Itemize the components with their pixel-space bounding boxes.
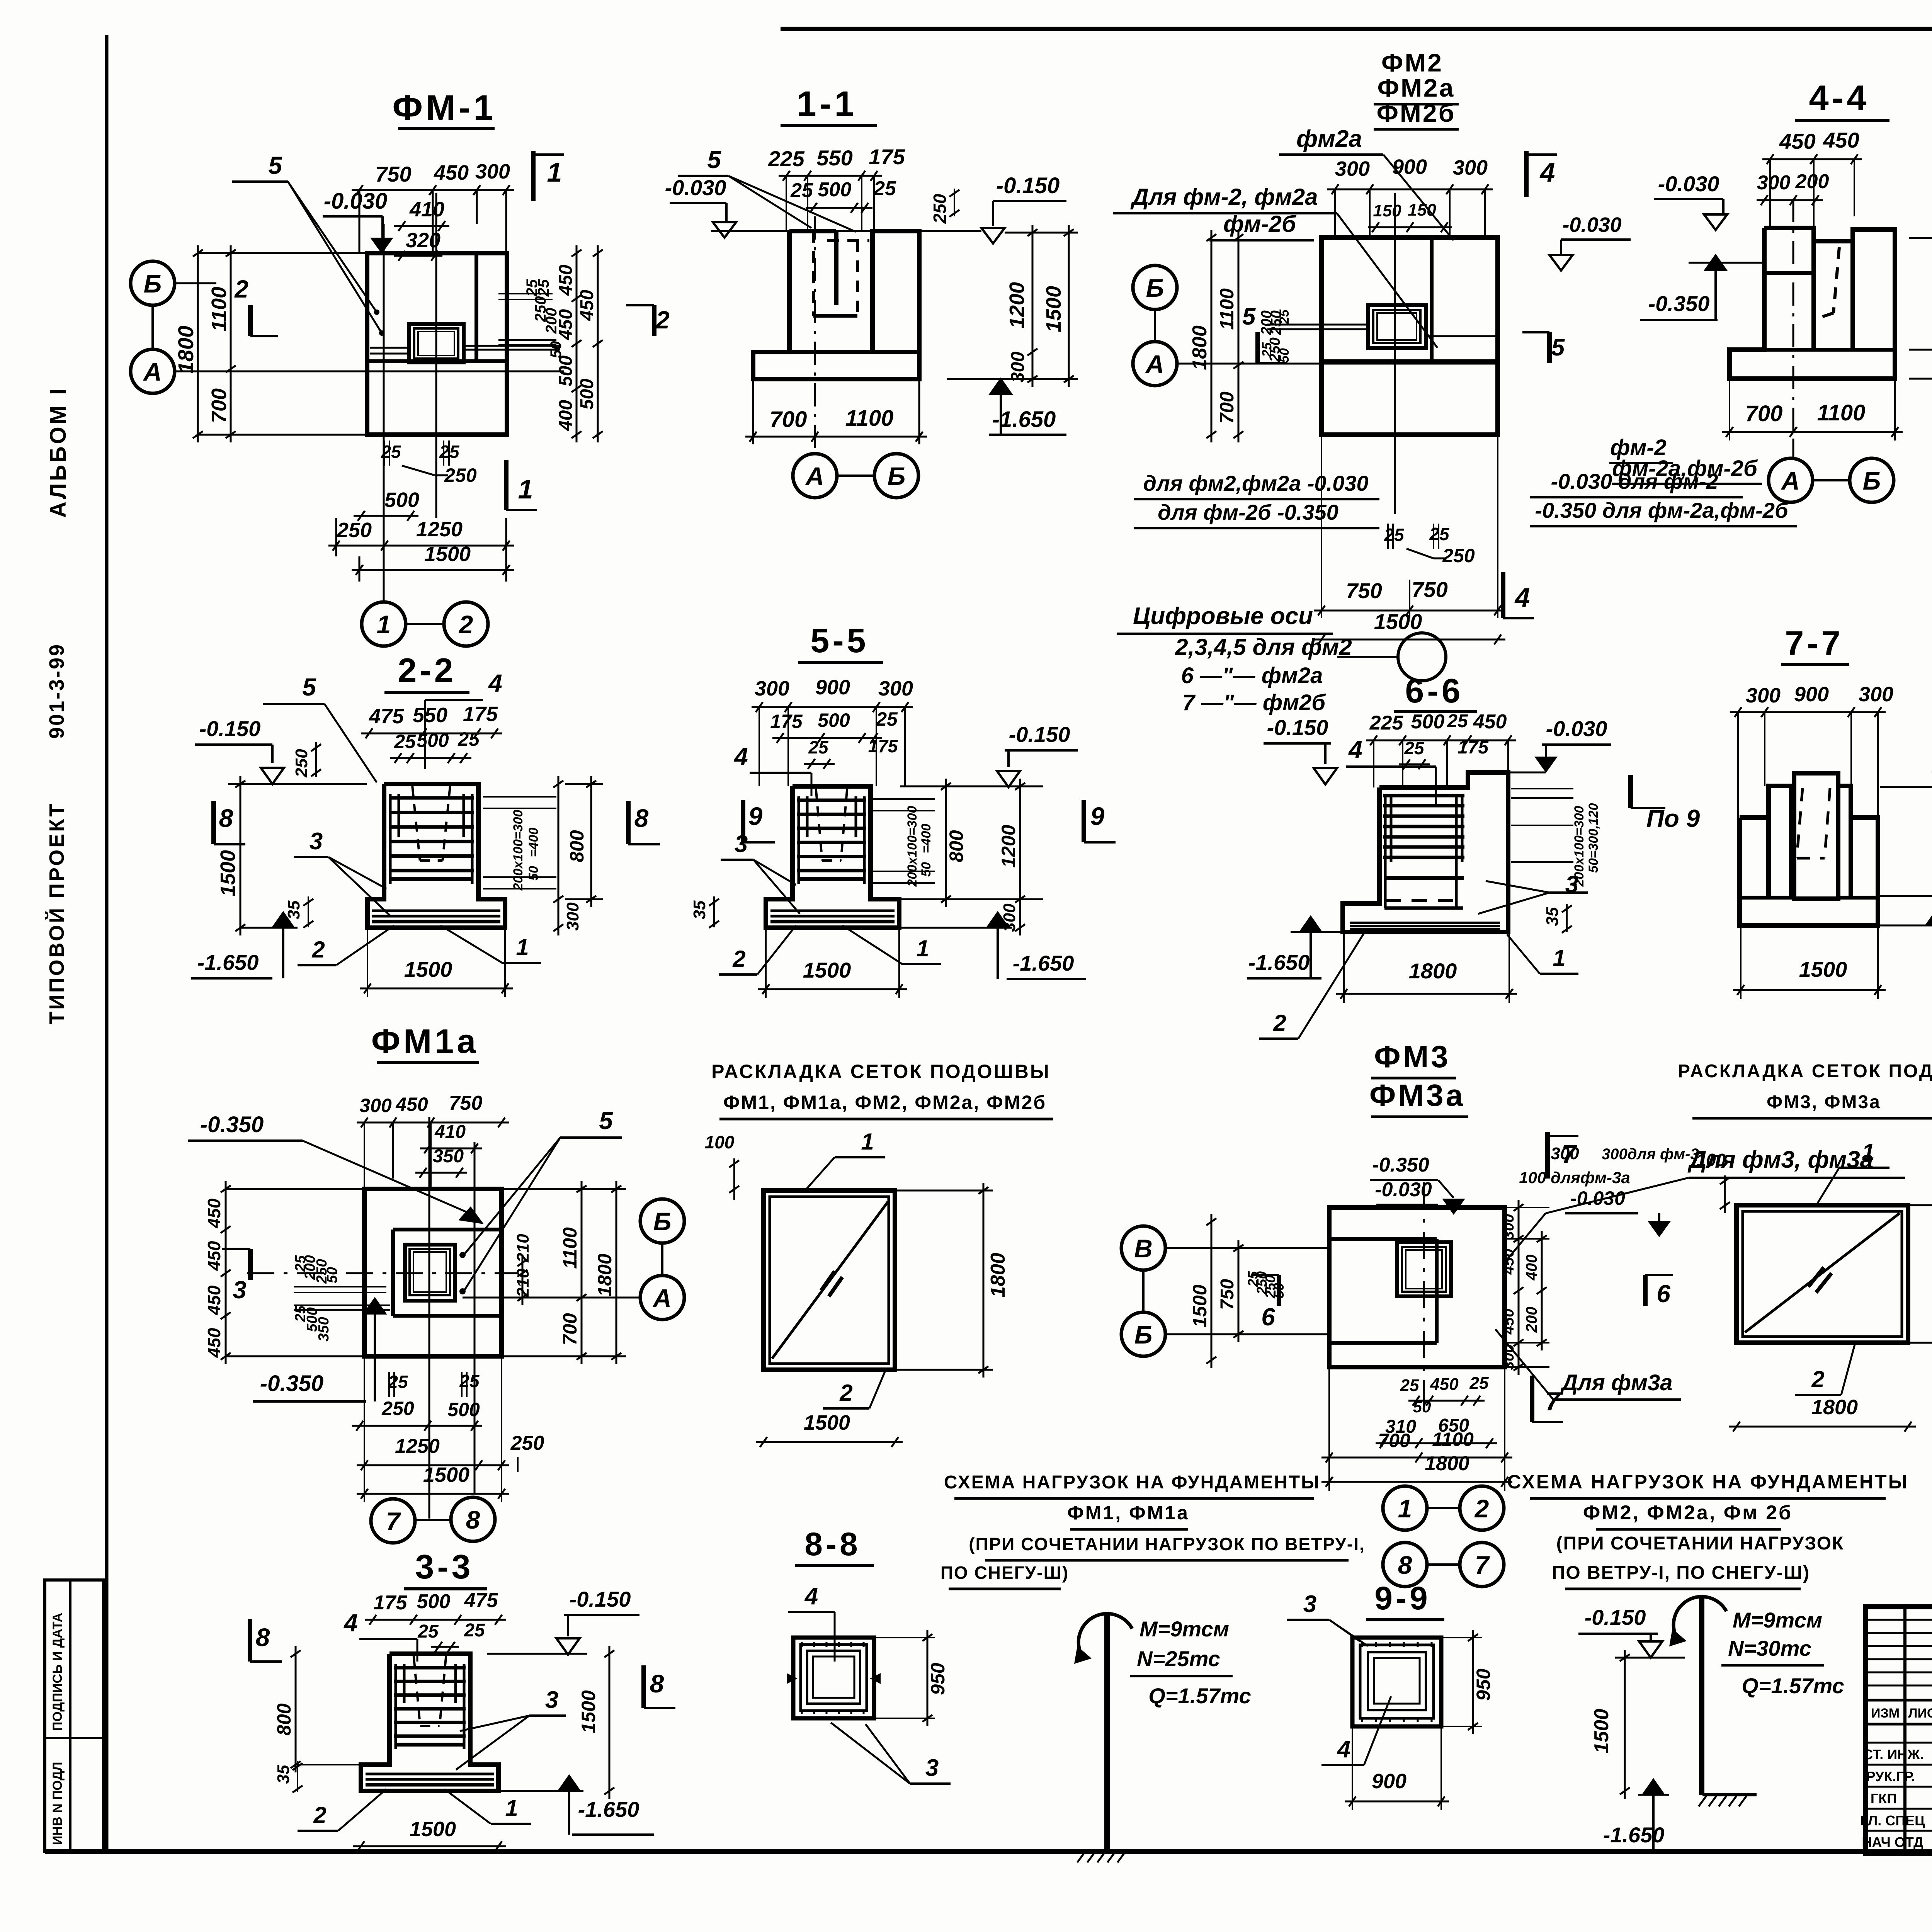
svg-text:5: 5 bbox=[599, 1107, 613, 1134]
section 3-3 body bbox=[361, 1654, 498, 1791]
svg-text:300: 300 bbox=[1335, 157, 1370, 180]
schema FM2 column line bbox=[1699, 1597, 1704, 1795]
svg-text:320: 320 bbox=[406, 229, 440, 252]
section 6-6 bottom mesh bbox=[1350, 922, 1500, 924]
svg-text:100 дляфм-3а: 100 дляфм-3а bbox=[1519, 1168, 1630, 1187]
svg-text:2: 2 bbox=[1474, 1494, 1489, 1523]
svg-text:1500: 1500 bbox=[424, 543, 471, 566]
svg-text:7 —"— фм2б: 7 —"— фм2б bbox=[1182, 690, 1326, 715]
svg-text:300: 300 bbox=[1859, 683, 1893, 706]
svg-text:450: 450 bbox=[577, 290, 597, 321]
svg-text:РУК.ГР.: РУК.ГР. bbox=[1866, 1769, 1915, 1784]
plan FM3 axis circle 7 bbox=[1460, 1543, 1504, 1587]
section 7-7 body inner right wall bbox=[1838, 786, 1851, 896]
section 1-1 axis circle A bbox=[793, 454, 837, 498]
svg-text:ГКП: ГКП bbox=[1871, 1791, 1897, 1806]
svg-text:1500: 1500 bbox=[804, 1411, 850, 1434]
svg-text:500: 500 bbox=[447, 1399, 480, 1420]
svg-text:300: 300 bbox=[359, 1095, 392, 1116]
svg-text:3: 3 bbox=[545, 1687, 558, 1713]
svg-text:35: 35 bbox=[284, 900, 303, 919]
svg-text:800: 800 bbox=[566, 830, 588, 862]
svg-text:ПОДПИСЬ И ДАТА: ПОДПИСЬ И ДАТА bbox=[50, 1613, 65, 1731]
section 1-1 right dims 1200 1500 300 bbox=[1032, 225, 1034, 387]
svg-text:300: 300 bbox=[878, 677, 913, 700]
svg-text:50: 50 bbox=[1413, 1398, 1431, 1416]
svg-text:ИНВ N ПОДЛ: ИНВ N ПОДЛ bbox=[50, 1762, 65, 1845]
svg-text:750: 750 bbox=[375, 162, 411, 186]
svg-text:-0.030: -0.030 bbox=[665, 175, 726, 200]
svg-text:1800: 1800 bbox=[1409, 959, 1457, 983]
plan FM3 right dim cluster bbox=[1518, 1200, 1520, 1375]
svg-text:8-8: 8-8 bbox=[804, 1526, 861, 1562]
svg-text:900: 900 bbox=[815, 676, 850, 699]
raskladka FM1 right dim 1800 bbox=[983, 1183, 985, 1378]
plan FM-1 mesh lines bbox=[370, 347, 409, 349]
plan FM-1 vertical axis lines bbox=[383, 224, 385, 602]
svg-text:475: 475 bbox=[464, 1589, 498, 1612]
svg-text:ФМ-1: ФМ-1 bbox=[393, 88, 497, 128]
svg-text:Б: Б bbox=[144, 269, 162, 298]
svg-text:-1.650: -1.650 bbox=[197, 950, 259, 975]
svg-text:6 —"— фм2а: 6 —"— фм2а bbox=[1181, 663, 1323, 688]
svg-text:1100: 1100 bbox=[1216, 288, 1238, 330]
svg-text:250: 250 bbox=[381, 1398, 414, 1419]
svg-text:1800: 1800 bbox=[173, 326, 198, 374]
svg-text:=400: =400 bbox=[526, 828, 541, 857]
svg-text:1100: 1100 bbox=[1817, 400, 1866, 425]
plan FM1a stakan nested rects bbox=[405, 1245, 455, 1301]
svg-text:450: 450 bbox=[204, 1285, 224, 1315]
svg-text:=300,120: =300,120 bbox=[1586, 803, 1601, 859]
svg-text:175: 175 bbox=[869, 145, 905, 169]
plan FM3 step lines bbox=[1435, 1239, 1439, 1343]
svg-text:1500: 1500 bbox=[803, 958, 851, 982]
svg-text:ТИПОВОЙ ПРОЕКТ: ТИПОВОЙ ПРОЕКТ bbox=[45, 802, 68, 1024]
svg-text:-0.350: -0.350 bbox=[1648, 291, 1710, 316]
svg-text:фм-2б: фм-2б bbox=[1223, 211, 1297, 237]
svg-text:3: 3 bbox=[233, 1276, 247, 1304]
title block left thin rows bbox=[1866, 1619, 1932, 1621]
svg-text:450: 450 bbox=[395, 1094, 428, 1115]
svg-text:25: 25 bbox=[1384, 525, 1405, 545]
plan FM2 axis circle A bbox=[1133, 342, 1177, 386]
svg-text:300: 300 bbox=[475, 160, 510, 183]
svg-text:450: 450 bbox=[1779, 129, 1815, 153]
svg-text:150: 150 bbox=[1408, 201, 1436, 219]
svg-text:СХЕМА НАГРУЗОК НА ФУНДАМЕНТЫ: СХЕМА НАГРУЗОК НА ФУНДАМЕНТЫ bbox=[1507, 1471, 1908, 1493]
svg-text:4: 4 bbox=[488, 669, 502, 697]
section 6-6 marker Po 9 bbox=[1628, 775, 1633, 808]
schema FM1 moment arc bbox=[1078, 1614, 1132, 1656]
svg-text:4: 4 bbox=[1337, 1736, 1350, 1763]
section 7-7 cavity dashed bbox=[1797, 788, 1803, 858]
section 7-7 base slab bbox=[1740, 818, 1878, 925]
svg-text:50: 50 bbox=[919, 862, 934, 877]
svg-text:950: 950 bbox=[927, 1663, 949, 1695]
svg-text:450: 450 bbox=[1473, 711, 1507, 733]
svg-text:А: А bbox=[1145, 350, 1164, 378]
svg-text:25: 25 bbox=[790, 179, 813, 202]
svg-text:450: 450 bbox=[1500, 1249, 1517, 1275]
plan FM3 axis circle 1 bbox=[1383, 1486, 1427, 1530]
svg-text:35: 35 bbox=[690, 900, 709, 919]
svg-text:500: 500 bbox=[384, 488, 419, 512]
svg-text:250: 250 bbox=[930, 194, 950, 224]
svg-text:-0.030: -0.030 bbox=[1562, 213, 1621, 236]
svg-text:3: 3 bbox=[310, 828, 323, 855]
section 1-1 axis circle B bbox=[874, 454, 918, 498]
svg-text:500: 500 bbox=[818, 179, 852, 201]
svg-text:200: 200 bbox=[543, 308, 560, 334]
svg-text:-0.150: -0.150 bbox=[1585, 1605, 1646, 1629]
svg-text:Q=1.57тс: Q=1.57тс bbox=[1742, 1673, 1844, 1698]
section 9-9 right dim 950 bbox=[1472, 1630, 1474, 1734]
svg-text:25: 25 bbox=[457, 728, 480, 750]
schema FM2 moment arc bbox=[1673, 1597, 1726, 1638]
svg-text:2: 2 bbox=[1273, 1010, 1286, 1036]
svg-text:50: 50 bbox=[1277, 348, 1292, 363]
svg-text:900: 900 bbox=[1372, 1770, 1406, 1793]
svg-text:950: 950 bbox=[1473, 1668, 1494, 1701]
svg-text:Для фм3а: Для фм3а bbox=[1560, 1370, 1673, 1395]
svg-text:900: 900 bbox=[1392, 155, 1427, 179]
svg-text:1500: 1500 bbox=[216, 850, 240, 896]
raskladka FM3 rect bbox=[1736, 1205, 1908, 1343]
svg-text:250: 250 bbox=[292, 749, 311, 778]
svg-text:300: 300 bbox=[1500, 1214, 1517, 1240]
svg-text:25: 25 bbox=[1400, 1376, 1419, 1395]
svg-text:250: 250 bbox=[444, 464, 477, 486]
svg-text:ФМ2а: ФМ2а bbox=[1378, 73, 1455, 102]
svg-text:25: 25 bbox=[1404, 738, 1425, 758]
svg-text:550: 550 bbox=[816, 146, 852, 170]
svg-text:А: А bbox=[1781, 466, 1800, 495]
svg-text:1200: 1200 bbox=[998, 825, 1019, 867]
svg-text:450: 450 bbox=[1823, 128, 1859, 152]
raskladka FM1 diagonal bbox=[772, 1202, 888, 1359]
plan FM2 stakan nested rects bbox=[1368, 305, 1426, 348]
plan FM-1 left dims 1100 700 bbox=[230, 245, 232, 442]
svg-text:25: 25 bbox=[1469, 1374, 1489, 1393]
svg-text:Q=1.57тс: Q=1.57тс bbox=[1148, 1684, 1251, 1708]
plan FM1a left dim chain 450x4 bbox=[225, 1181, 227, 1364]
svg-text:25: 25 bbox=[873, 177, 896, 200]
svg-text:450: 450 bbox=[204, 1328, 224, 1358]
svg-text:225: 225 bbox=[1369, 712, 1404, 734]
svg-text:5: 5 bbox=[707, 146, 721, 173]
section 7-7 body outer right block bbox=[1851, 818, 1878, 898]
svg-text:300: 300 bbox=[1500, 1344, 1517, 1370]
svg-text:=400: =400 bbox=[919, 824, 934, 854]
svg-text:(ПРИ СОЧЕТАНИИ НАГРУЗОК ПО ВЕТ: (ПРИ СОЧЕТАНИИ НАГРУЗОК ПО ВЕТРУ-I, bbox=[969, 1534, 1365, 1554]
plan FM-1 bottom axis circle 1 bbox=[362, 602, 406, 646]
title block signature rows bbox=[1866, 1742, 1932, 1744]
svg-text:700: 700 bbox=[207, 388, 231, 423]
plan FM-1 step line vertical bbox=[474, 253, 478, 361]
svg-text:1: 1 bbox=[505, 1795, 518, 1821]
svg-text:1: 1 bbox=[547, 157, 562, 187]
svg-text:2: 2 bbox=[311, 937, 325, 963]
svg-text:1500: 1500 bbox=[1042, 286, 1065, 332]
svg-text:ФМ3, ФМ3а: ФМ3, ФМ3а bbox=[1767, 1092, 1881, 1112]
svg-text:400: 400 bbox=[556, 400, 576, 431]
svg-text:НАЧ ОТД: НАЧ ОТД bbox=[1862, 1834, 1923, 1850]
svg-text:1500: 1500 bbox=[1374, 609, 1422, 634]
svg-text:ЛИСТ: ЛИСТ bbox=[1908, 1706, 1932, 1721]
svg-text:2: 2 bbox=[732, 946, 745, 972]
svg-text:350: 350 bbox=[433, 1146, 464, 1167]
svg-text:1100: 1100 bbox=[207, 287, 231, 332]
svg-text:-1.650: -1.650 bbox=[1013, 951, 1074, 975]
svg-text:1800: 1800 bbox=[1425, 1452, 1469, 1475]
svg-text:25: 25 bbox=[464, 1620, 485, 1641]
svg-text:В: В bbox=[1134, 1234, 1153, 1263]
svg-text:Цифровые оси: Цифровые оси bbox=[1133, 603, 1313, 629]
plan FM1a axis circle 7 bbox=[371, 1499, 415, 1543]
svg-text:АЛЬБОМ I: АЛЬБОМ I bbox=[46, 386, 71, 518]
svg-text:1: 1 bbox=[1553, 945, 1565, 971]
svg-text:500: 500 bbox=[577, 379, 597, 410]
svg-text:4-4: 4-4 bbox=[1809, 78, 1870, 118]
svg-text:1500: 1500 bbox=[410, 1818, 456, 1841]
svg-text:-0.350: -0.350 bbox=[1372, 1154, 1429, 1176]
svg-text:2: 2 bbox=[234, 275, 248, 303]
svg-text:ПО ВЕТРУ-I, ПО СНЕГУ-Ш): ПО ВЕТРУ-I, ПО СНЕГУ-Ш) bbox=[1552, 1563, 1810, 1583]
svg-text:N=30тс: N=30тс bbox=[1728, 1636, 1811, 1660]
svg-text:1: 1 bbox=[916, 935, 929, 961]
svg-text:200х100=300: 200х100=300 bbox=[511, 810, 526, 891]
svg-text:-1.650: -1.650 bbox=[578, 1797, 639, 1821]
svg-text:(ПРИ СОЧЕТАНИИ НАГРУЗОК: (ПРИ СОЧЕТАНИИ НАГРУЗОК bbox=[1556, 1533, 1844, 1554]
plan FM-1 section marker 1 top bbox=[531, 151, 536, 201]
plan FM-1 outer rect bbox=[367, 253, 507, 435]
svg-text:2: 2 bbox=[839, 1380, 852, 1406]
svg-text:1800: 1800 bbox=[987, 1253, 1009, 1298]
section 5-5 body bbox=[766, 786, 899, 928]
section 3-3 marker 8 left bbox=[248, 1619, 252, 1662]
svg-text:ГЛ. СПЕЦ: ГЛ. СПЕЦ bbox=[1861, 1813, 1925, 1828]
section 4-4 right dims 1200 300 1500 bbox=[1909, 237, 1932, 239]
plan FM3 marker 6 left bbox=[1277, 1275, 1281, 1306]
svg-text:8: 8 bbox=[219, 804, 233, 832]
svg-text:М=9тсм: М=9тсм bbox=[1139, 1617, 1229, 1641]
section 7-7 body outer left block bbox=[1740, 818, 1769, 898]
plan FM1a axis circle 8 bbox=[451, 1497, 495, 1541]
svg-text:ПО СНЕГУ-Ш): ПО СНЕГУ-Ш) bbox=[940, 1563, 1069, 1583]
note cifrovye osi circle bbox=[1398, 633, 1446, 681]
plan FM-1 section marker 2 left bbox=[248, 305, 253, 336]
svg-text:500: 500 bbox=[818, 709, 850, 731]
plan FM2 section flag 4 top bbox=[1524, 151, 1529, 197]
title block left columns bbox=[1903, 1607, 1906, 1854]
svg-text:750: 750 bbox=[1346, 578, 1382, 603]
svg-text:475: 475 bbox=[369, 705, 404, 728]
svg-text:175: 175 bbox=[868, 736, 898, 756]
svg-text:750: 750 bbox=[1412, 577, 1447, 602]
svg-text:-0.150: -0.150 bbox=[996, 173, 1060, 198]
plan FM2 axis lines inside bbox=[1321, 363, 1498, 365]
svg-text:РАСКЛАДКА СЕТОК ПОДОШВЫ: РАСКЛАДКА СЕТОК ПОДОШВЫ bbox=[711, 1061, 1051, 1082]
svg-text:-0.350 для фм-2а,фм-2б: -0.350 для фм-2а,фм-2б bbox=[1535, 498, 1789, 522]
section 7-7 body central column bbox=[1794, 773, 1838, 899]
section 6-6 right ext lines and cluster bbox=[1511, 788, 1573, 789]
plan FM3 marker 6 right bbox=[1643, 1275, 1648, 1306]
svg-text:3: 3 bbox=[1303, 1591, 1316, 1617]
svg-text:4: 4 bbox=[1348, 736, 1362, 764]
svg-text:ФМ2б: ФМ2б bbox=[1377, 99, 1456, 127]
svg-text:25: 25 bbox=[394, 731, 416, 752]
svg-text:750: 750 bbox=[1217, 1279, 1238, 1310]
section 1-1 ground level line bbox=[711, 230, 981, 232]
svg-text:450: 450 bbox=[1430, 1375, 1459, 1394]
section 8-8 right dim 950 bbox=[927, 1630, 929, 1726]
svg-text:700: 700 bbox=[1216, 391, 1238, 424]
svg-text:Б: Б bbox=[888, 462, 906, 490]
schema FM1 ground hatch bbox=[1081, 1849, 1133, 1852]
section 2-2 marker 8 left bbox=[211, 801, 216, 844]
svg-text:-0.030: -0.030 bbox=[1546, 716, 1607, 741]
plan FM1a step lines bbox=[393, 1228, 502, 1231]
svg-text:250: 250 bbox=[1442, 545, 1475, 566]
plan FM2 section flag 5 right bbox=[1547, 332, 1552, 363]
svg-text:1500: 1500 bbox=[1799, 957, 1847, 981]
svg-text:450: 450 bbox=[204, 1198, 224, 1228]
svg-text:25: 25 bbox=[388, 1372, 408, 1392]
svg-text:Б: Б bbox=[653, 1207, 672, 1236]
plan FM2 outer rect bbox=[1321, 238, 1498, 435]
svg-text:6: 6 bbox=[1656, 1280, 1670, 1308]
svg-text:1-1: 1-1 bbox=[797, 84, 857, 124]
svg-text:4: 4 bbox=[343, 1609, 358, 1637]
plan FM-1 stakan nested rects bbox=[409, 324, 464, 362]
svg-text:1800: 1800 bbox=[594, 1253, 616, 1296]
plan FM2 axis circle B bbox=[1133, 265, 1177, 310]
svg-text:1100: 1100 bbox=[559, 1227, 581, 1269]
plan FM-1 axis circle B bbox=[131, 261, 175, 305]
plan FM3 outer rect bbox=[1329, 1207, 1505, 1367]
section 7-7 ground level line bbox=[1880, 786, 1932, 788]
plan FM2 section flag 5 left bbox=[1255, 332, 1260, 363]
svg-text:300: 300 bbox=[1746, 684, 1781, 707]
svg-text:фм-2а,фм-2б: фм-2а,фм-2б bbox=[1612, 456, 1758, 481]
svg-text:700: 700 bbox=[1745, 401, 1783, 426]
plan FM3 axis circle 2 bbox=[1460, 1486, 1504, 1530]
section 4-4 body bbox=[1764, 228, 1814, 350]
svg-text:35: 35 bbox=[274, 1765, 293, 1784]
plan FM3 axis circle V bbox=[1121, 1226, 1165, 1270]
section 4-4 axis circle B bbox=[1850, 458, 1894, 502]
svg-text:Для фм-2, фм2а: Для фм-2, фм2а bbox=[1130, 184, 1318, 210]
svg-text:-0.030: -0.030 bbox=[324, 189, 387, 214]
svg-text:500: 500 bbox=[1411, 711, 1445, 733]
svg-text:7: 7 bbox=[1475, 1551, 1490, 1579]
svg-text:5: 5 bbox=[1551, 334, 1565, 361]
svg-text:9-9: 9-9 bbox=[1374, 1580, 1430, 1616]
svg-text:3: 3 bbox=[925, 1755, 939, 1781]
section 2-2 left dim 1500 bbox=[240, 776, 241, 935]
svg-text:ФМ2: ФМ2 bbox=[1381, 48, 1443, 77]
svg-text:8: 8 bbox=[650, 1669, 664, 1698]
svg-text:450: 450 bbox=[434, 161, 469, 184]
plan FM2 section flag 4 bottom bbox=[1501, 572, 1505, 618]
section 7-7 body inner left wall bbox=[1769, 786, 1791, 896]
svg-text:-0.350: -0.350 bbox=[200, 1112, 264, 1137]
svg-text:25: 25 bbox=[876, 708, 898, 730]
section 2-2 ground line bbox=[228, 783, 367, 785]
svg-text:8: 8 bbox=[1398, 1551, 1412, 1579]
svg-text:-0.150: -0.150 bbox=[1267, 715, 1328, 740]
svg-text:6-6: 6-6 bbox=[1405, 672, 1463, 710]
svg-text:N=25тс: N=25тс bbox=[1137, 1646, 1220, 1671]
svg-text:300: 300 bbox=[563, 902, 582, 931]
svg-text:4: 4 bbox=[804, 1583, 818, 1610]
svg-text:100: 100 bbox=[1696, 1150, 1726, 1170]
svg-text:500: 500 bbox=[417, 730, 449, 751]
svg-text:700: 700 bbox=[1378, 1430, 1410, 1451]
svg-text:3: 3 bbox=[1565, 871, 1578, 898]
schema FM1 column line bbox=[1104, 1615, 1110, 1851]
svg-text:6: 6 bbox=[1261, 1303, 1275, 1331]
section 3-3 right dim 1500 bbox=[609, 1646, 611, 1799]
section 5-5 right dims cluster bbox=[873, 798, 935, 800]
section 3-3 marker 8 right bbox=[641, 1665, 646, 1708]
svg-text:-0.150: -0.150 bbox=[199, 716, 261, 741]
svg-text:ИЗМ: ИЗМ bbox=[1871, 1706, 1900, 1721]
svg-text:1250: 1250 bbox=[395, 1435, 440, 1458]
svg-text:175: 175 bbox=[770, 711, 803, 732]
raskladka FM1 rect bbox=[764, 1190, 895, 1370]
svg-text:1800: 1800 bbox=[1811, 1396, 1858, 1419]
section 3-3 left dim 800 bbox=[295, 1646, 297, 1772]
svg-text:7-7: 7-7 bbox=[1785, 624, 1843, 662]
section 6-6 body bbox=[1343, 772, 1508, 932]
section 4-4 cavity dashed bbox=[1833, 247, 1839, 313]
svg-text:СХЕМА НАГРУЗОК НА ФУНДАМЕНТЫ: СХЕМА НАГРУЗОК НА ФУНДАМЕНТЫ bbox=[944, 1472, 1320, 1493]
svg-text:25: 25 bbox=[1429, 524, 1450, 544]
plan FM3 stakan nested rects bbox=[1397, 1242, 1451, 1296]
svg-text:ФМ2, ФМ2а, Фм 2б: ФМ2, ФМ2а, Фм 2б bbox=[1583, 1502, 1793, 1524]
svg-text:5: 5 bbox=[1242, 303, 1256, 330]
plan FM1a axis circle A bbox=[640, 1276, 684, 1320]
svg-text:1200: 1200 bbox=[1005, 282, 1029, 328]
svg-text:450: 450 bbox=[1500, 1309, 1517, 1335]
plan FM3 left dims 1500 750 bbox=[1211, 1214, 1213, 1368]
svg-text:5: 5 bbox=[302, 673, 316, 701]
svg-text:1500: 1500 bbox=[1189, 1284, 1211, 1327]
svg-text:50: 50 bbox=[1586, 858, 1601, 873]
svg-text:А: А bbox=[652, 1284, 672, 1312]
plan FM-1 bottom axis circle 2 bbox=[444, 602, 488, 646]
svg-text:Б: Б bbox=[1146, 274, 1164, 302]
plan FM1a axis lines bbox=[247, 1272, 518, 1274]
svg-text:1: 1 bbox=[861, 1129, 874, 1155]
svg-text:ФМ1, ФМ1а: ФМ1, ФМ1а bbox=[1067, 1502, 1189, 1524]
svg-text:8: 8 bbox=[256, 1623, 270, 1651]
svg-text:300: 300 bbox=[1008, 352, 1028, 383]
svg-text:ФМ3а: ФМ3а bbox=[1369, 1078, 1465, 1112]
svg-text:3: 3 bbox=[735, 831, 748, 857]
plan FM-1 right dim chain bbox=[576, 245, 578, 442]
svg-text:8: 8 bbox=[466, 1505, 480, 1534]
svg-text:25: 25 bbox=[1277, 309, 1292, 325]
plan FM-1 axis A line bbox=[175, 371, 564, 372]
svg-text:300: 300 bbox=[1453, 156, 1488, 179]
svg-text:350: 350 bbox=[316, 1317, 332, 1341]
svg-text:300: 300 bbox=[755, 677, 789, 700]
plan FM-1 section marker 2 right bbox=[652, 305, 656, 336]
svg-text:1: 1 bbox=[1862, 1139, 1874, 1165]
